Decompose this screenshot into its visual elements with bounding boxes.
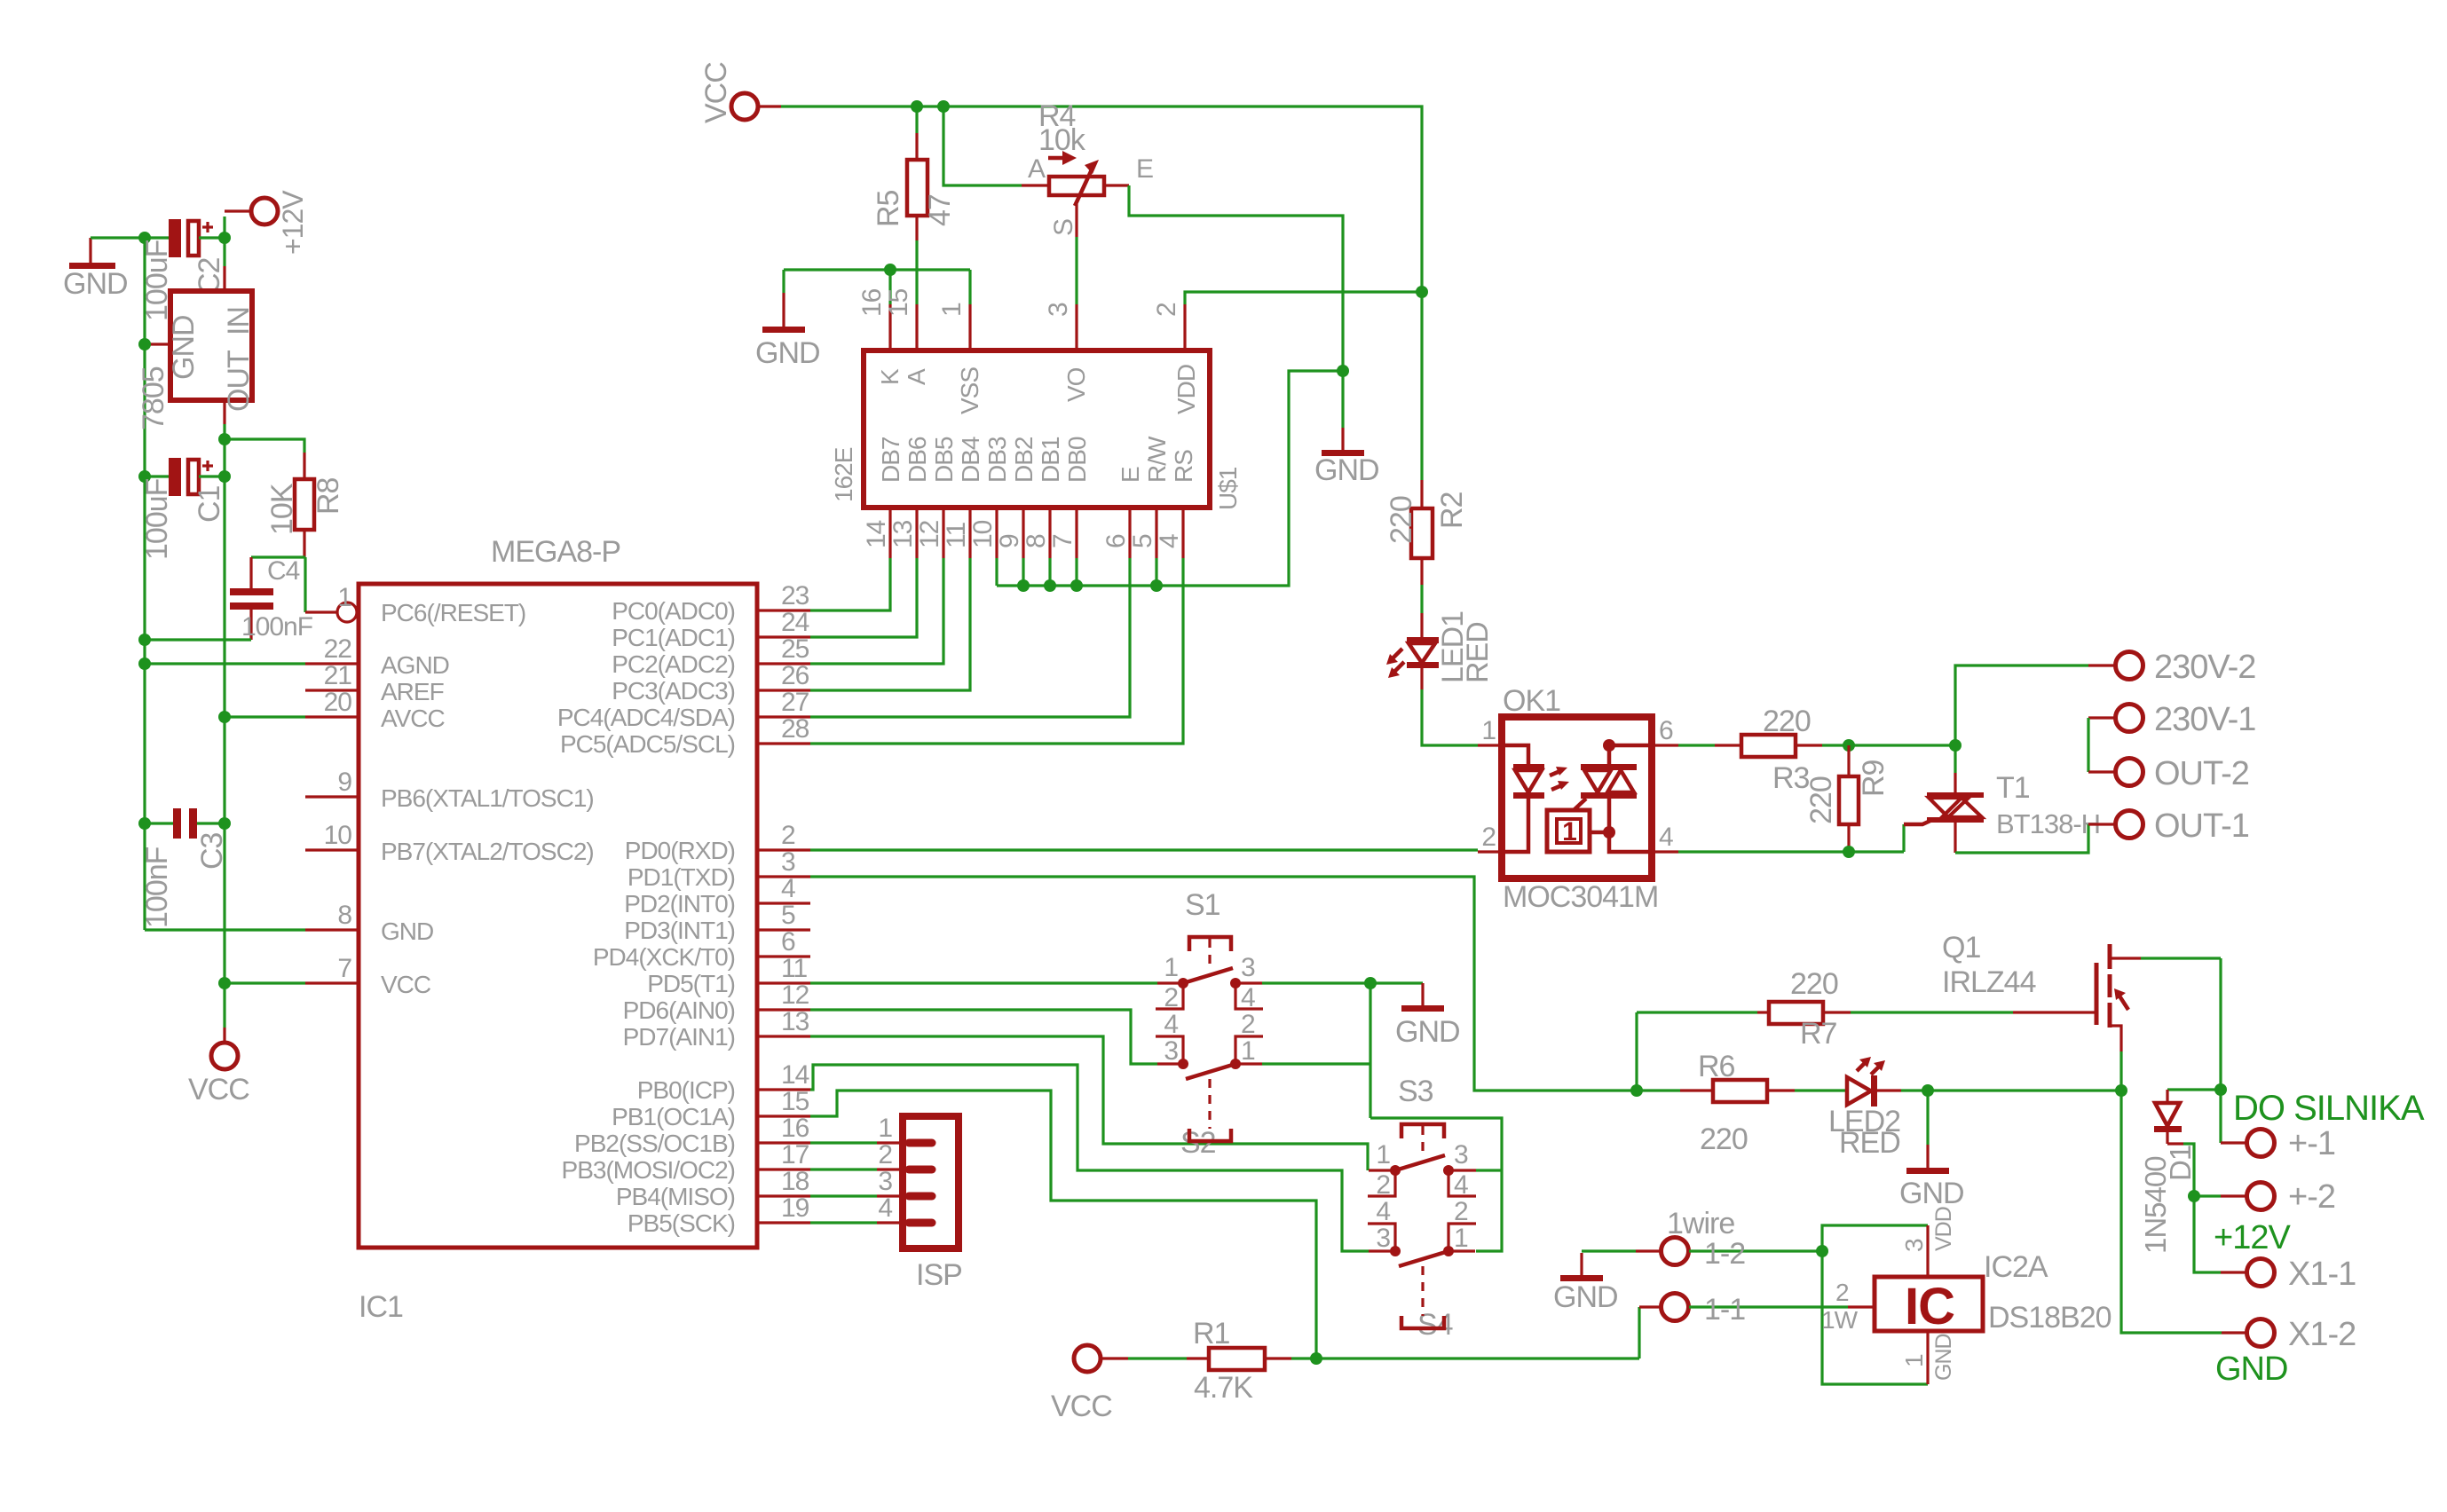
optocoupler OK1 MOC3041M <box>1478 684 1678 914</box>
svg-text:7: 7 <box>337 954 351 983</box>
wire T1 top to 230V-2 <box>1955 665 2088 745</box>
node K tap <box>884 264 896 276</box>
wire PD5 to S1 <box>810 981 1157 984</box>
svg-text:OUT-1: OUT-1 <box>2154 807 2249 845</box>
wires PC0-PC3 to LCD DB7-DB4 <box>810 558 890 610</box>
terminal OUT-1 <box>2088 807 2249 845</box>
svg-text:220: 220 <box>1700 1122 1748 1156</box>
svg-text:+12V: +12V <box>277 190 309 255</box>
node pot-E gnd junction <box>1337 365 1349 377</box>
capacitor C1 <box>138 458 231 560</box>
svg-text:IRLZ44: IRLZ44 <box>1942 965 2036 999</box>
resistor R2 <box>1385 480 1469 585</box>
svg-text:1: 1 <box>937 303 967 317</box>
svg-text:100uF: 100uF <box>140 478 174 560</box>
svg-text:3: 3 <box>1376 1224 1390 1253</box>
svg-text:4: 4 <box>878 1193 892 1223</box>
wire S1 pin3 to GND <box>1262 981 1423 984</box>
svg-text:VO: VO <box>1062 367 1090 402</box>
node VCC pin7 junction <box>218 977 231 989</box>
svg-text:X1-1: X1-1 <box>2288 1256 2356 1293</box>
svg-text:23: 23 <box>781 581 809 610</box>
left pin numbers <box>324 634 352 983</box>
svg-text:S1: S1 <box>1185 888 1220 922</box>
svg-text:220: 220 <box>1804 776 1838 824</box>
wire LCD data bus (DB3..DB0,R/W tied) <box>995 558 998 586</box>
terminal VCC (top) <box>699 62 781 123</box>
svg-text:T1: T1 <box>1996 771 2030 805</box>
svg-text:3: 3 <box>1900 1239 1928 1252</box>
terminal VCC (bottom of +5V rail) <box>188 1028 249 1106</box>
resistor R5 <box>872 106 957 304</box>
right pin numbers <box>781 581 809 1223</box>
wire PD7 to S3 <box>810 1036 1368 1170</box>
svg-text:GND: GND <box>1395 1015 1460 1049</box>
svg-text:A: A <box>1028 154 1046 184</box>
svg-text:10k: 10k <box>1038 123 1086 157</box>
svg-text:3: 3 <box>781 847 795 877</box>
svg-text:1: 1 <box>1376 1140 1390 1169</box>
svg-text:DS18B20: DS18B20 <box>1988 1301 2112 1335</box>
wire LED1 to OK1 pin1 <box>1422 689 1478 745</box>
svg-text:1: 1 <box>1562 817 1576 847</box>
svg-text:1: 1 <box>337 583 351 612</box>
node AVCC junction <box>218 711 231 723</box>
svg-text:230V-1: 230V-1 <box>2154 701 2255 738</box>
svg-text:20: 20 <box>324 688 352 717</box>
svg-text:4: 4 <box>1155 534 1184 548</box>
svg-text:3: 3 <box>878 1167 892 1196</box>
svg-text:21: 21 <box>324 661 352 690</box>
svg-text:R/W: R/W <box>1143 436 1171 483</box>
svg-text:S: S <box>1049 219 1078 236</box>
svg-text:PD3(INT1): PD3(INT1) <box>624 917 735 944</box>
svg-text:GND: GND <box>755 336 820 370</box>
svg-text:RED: RED <box>1461 622 1495 683</box>
svg-text:4: 4 <box>1659 823 1673 852</box>
wire R3 to T1 node <box>1822 744 1955 746</box>
svg-text:PD0(RXD): PD0(RXD) <box>625 837 735 864</box>
svg-text:PB1(OC1A): PB1(OC1A) <box>612 1103 735 1130</box>
node 7805 GND pin on rail <box>138 338 151 350</box>
internal LED <box>1502 745 1528 767</box>
svg-text:IC: IC <box>1905 1278 1954 1335</box>
potentiometer R4 10k <box>943 99 1153 304</box>
svg-text:10: 10 <box>968 520 998 548</box>
svg-text:220: 220 <box>1385 496 1418 544</box>
wire OK1 pin6 to R3 <box>1678 744 1715 746</box>
wire PC5 to LCD RS <box>810 558 1183 744</box>
svg-text:8: 8 <box>337 901 351 930</box>
svg-text:E: E <box>1117 467 1144 483</box>
resistor R6 <box>1680 1050 1795 1156</box>
svg-text:BT138-H: BT138-H <box>1996 808 2100 839</box>
svg-text:VCC: VCC <box>699 62 733 123</box>
svg-text:E: E <box>1136 154 1153 184</box>
wire Q1 drain down to motor terminal <box>2219 958 2222 1143</box>
svg-text:2: 2 <box>1376 1170 1390 1200</box>
svg-text:GND: GND <box>381 917 433 945</box>
svg-text:IC2A: IC2A <box>1984 1250 2048 1284</box>
svg-text:8: 8 <box>1022 534 1051 548</box>
svg-text:PC2(ADC2): PC2(ADC2) <box>612 650 735 678</box>
svg-text:R6: R6 <box>1698 1050 1735 1083</box>
right pin stubs <box>757 610 810 1223</box>
resistor R7 <box>1637 967 1851 1051</box>
svg-text:AREF: AREF <box>381 678 444 705</box>
lcd U$1 162E <box>864 304 1210 558</box>
svg-text:9: 9 <box>337 768 351 797</box>
svg-text:VDD: VDD <box>1172 365 1200 414</box>
svg-text:D1: D1 <box>2164 1146 2197 1181</box>
svg-text:18: 18 <box>781 1167 809 1196</box>
svg-text:GND: GND <box>63 267 128 301</box>
svg-text:+-1: +-1 <box>2288 1125 2335 1162</box>
wire 230V-1 to OUT-2 <box>2087 718 2089 772</box>
svg-text:4: 4 <box>781 874 795 903</box>
wires PB2-PB5 to ISP <box>810 1141 877 1144</box>
svg-text:1W: 1W <box>1821 1306 1859 1334</box>
svg-text:100nF: 100nF <box>140 847 174 928</box>
wire PB1 to R1 (1wire) <box>810 1091 1316 1358</box>
wire PD1 to R6/R7 junction <box>810 877 1680 1091</box>
svg-text:1wire: 1wire <box>1667 1207 1734 1240</box>
switch S2 <box>1156 1010 1263 1160</box>
connector ISP <box>877 1114 962 1292</box>
mcu IC1 MEGA8-P <box>359 584 757 1248</box>
wire AVCC <box>225 715 305 718</box>
svg-text:DB6: DB6 <box>904 437 931 483</box>
svg-text:2: 2 <box>1835 1279 1849 1306</box>
wire C4 bottom to GND rail <box>145 638 251 641</box>
resistor R8 <box>265 453 345 557</box>
svg-text:PD5(T1): PD5(T1) <box>647 970 735 997</box>
resistor R9 <box>1804 745 1891 852</box>
diode D1 1N5400 <box>2139 1090 2221 1254</box>
svg-text:14: 14 <box>781 1060 809 1090</box>
terminal +-2 <box>2194 1178 2335 1216</box>
lcd pin names <box>830 365 1242 510</box>
node C2 right <box>218 232 231 244</box>
svg-text:U$1: U$1 <box>1214 467 1242 510</box>
wire VCC top rail <box>781 106 1422 480</box>
ground (1wire connector) <box>1553 1253 1618 1314</box>
svg-text:IN: IN <box>222 307 256 335</box>
svg-text:19: 19 <box>781 1193 809 1223</box>
svg-text:1-2: 1-2 <box>1704 1237 1745 1271</box>
wire to +12V terminal <box>223 217 225 238</box>
svg-text:4.7K: 4.7K <box>1194 1371 1253 1405</box>
wire DQ up to 1-1 <box>1638 1307 1640 1358</box>
svg-text:15: 15 <box>781 1087 809 1116</box>
node 1wire pullup <box>1310 1352 1322 1365</box>
terminal OUT-2 <box>2088 755 2249 792</box>
svg-text:AGND: AGND <box>381 651 449 679</box>
svg-text:DB5: DB5 <box>930 437 958 483</box>
svg-text:10: 10 <box>324 821 352 850</box>
wire PD0 to OK1 pin2 <box>810 848 1478 851</box>
svg-text:28: 28 <box>781 714 809 744</box>
svg-text:OUT: OUT <box>222 350 256 412</box>
node GND rail / C2 junction <box>138 232 151 244</box>
ground (LED2/Q1 source) <box>1899 1091 1964 1210</box>
svg-text:GND: GND <box>1553 1280 1618 1314</box>
svg-text:24: 24 <box>781 608 809 637</box>
svg-text:2: 2 <box>1481 823 1496 852</box>
svg-text:26: 26 <box>781 661 809 690</box>
svg-text:R5: R5 <box>872 190 905 227</box>
svg-text:X1-2: X1-2 <box>2288 1316 2356 1353</box>
svg-text:DB2: DB2 <box>1010 437 1038 483</box>
node VDD/GND parasite <box>1816 1245 1828 1257</box>
svg-text:1: 1 <box>1900 1354 1928 1367</box>
svg-text:PC4(ADC4/SDA): PC4(ADC4/SDA) <box>557 704 735 731</box>
terminal 230V-1 <box>2088 701 2255 738</box>
svg-text:PC1(ADC1): PC1(ADC1) <box>612 624 735 651</box>
ground (pot E / LCD data) <box>1314 371 1379 487</box>
svg-text:R2: R2 <box>1435 492 1469 529</box>
svg-text:PC6(/RESET): PC6(/RESET) <box>381 599 525 626</box>
wire R8 bottom to C4 top and reset <box>251 555 305 558</box>
node VDD tap <box>1416 286 1428 298</box>
svg-text:DB4: DB4 <box>957 437 984 483</box>
svg-text:PD7(AIN1): PD7(AIN1) <box>623 1023 735 1051</box>
svg-text:100nF: 100nF <box>241 612 313 642</box>
svg-text:Q1: Q1 <box>1942 931 1980 965</box>
svg-text:5: 5 <box>781 901 795 930</box>
led LED2 RED <box>1795 1057 1901 1160</box>
svg-text:1: 1 <box>878 1114 892 1143</box>
svg-text:DB0: DB0 <box>1063 437 1091 483</box>
svg-text:K: K <box>876 368 904 385</box>
terminal +12V <box>225 190 309 255</box>
svg-text:+12V: +12V <box>2214 1219 2291 1256</box>
connector 1wire 1-2 <box>1636 1207 1822 1271</box>
svg-text:220: 220 <box>1763 705 1811 738</box>
svg-text:6: 6 <box>1101 534 1131 548</box>
resistor R1 4.7K <box>1128 1317 1291 1405</box>
svg-text:2: 2 <box>1241 1010 1255 1039</box>
wire PC4 to LCD E <box>810 558 1130 717</box>
wire OK1 pin4 / gate net <box>1678 850 1904 853</box>
svg-text:PB7(XTAL2/TOSC2): PB7(XTAL2/TOSC2) <box>381 838 594 865</box>
internal triac <box>1581 764 1637 770</box>
svg-text:2: 2 <box>1454 1197 1468 1226</box>
node OUT junction <box>218 433 231 445</box>
lcd pin numbers top <box>857 288 1181 317</box>
svg-text:A: A <box>903 368 930 385</box>
svg-text:GND: GND <box>1931 1334 1956 1381</box>
wire T1 bottom to OUT-1 <box>1955 824 2088 853</box>
wire K/VSS gnd <box>784 268 970 271</box>
svg-text:25: 25 <box>781 634 809 664</box>
zero-cross box "1" <box>1547 810 1590 852</box>
svg-text:RED: RED <box>1839 1126 1900 1160</box>
wire PD6 to S2 <box>810 1010 1157 1064</box>
triac T1 BT138-H <box>1904 745 2100 853</box>
svg-text:11: 11 <box>942 523 971 548</box>
switch S3 <box>1368 1075 1476 1200</box>
left pin names <box>381 599 594 998</box>
svg-text:2: 2 <box>781 821 795 850</box>
svg-text:14: 14 <box>862 520 891 548</box>
svg-text:RS: RS <box>1170 450 1197 483</box>
svg-text:13: 13 <box>888 520 918 548</box>
svg-text:16: 16 <box>781 1114 809 1143</box>
svg-text:13: 13 <box>781 1007 809 1036</box>
svg-text:PD1(TXD): PD1(TXD) <box>628 863 735 891</box>
transistor Q1 IRLZ44 <box>1942 931 2221 1091</box>
wire VCC pin7 <box>225 981 305 984</box>
svg-text:MOC3041M: MOC3041M <box>1503 880 1658 914</box>
svg-text:10K: 10K <box>265 483 299 535</box>
svg-text:17: 17 <box>781 1140 809 1169</box>
svg-text:R1: R1 <box>1193 1317 1230 1351</box>
svg-text:1: 1 <box>1241 1036 1255 1066</box>
svg-text:GND: GND <box>167 315 201 380</box>
terminal +-1 <box>2221 1125 2335 1162</box>
capacitor C2 <box>140 219 226 321</box>
svg-text:S3: S3 <box>1398 1075 1433 1108</box>
gate diagonal <box>1574 799 1586 810</box>
svg-text:1: 1 <box>1481 716 1496 745</box>
node AGND junction <box>138 658 151 670</box>
svg-text:OK1: OK1 <box>1503 684 1560 718</box>
svg-text:VCC: VCC <box>381 971 431 998</box>
svg-text:9: 9 <box>995 534 1024 548</box>
svg-text:16: 16 <box>857 288 887 317</box>
svg-text:1: 1 <box>1454 1224 1468 1253</box>
svg-text:230V-2: 230V-2 <box>2154 649 2255 686</box>
svg-text:11: 11 <box>781 954 807 983</box>
svg-text:1: 1 <box>1164 953 1178 982</box>
svg-text:2: 2 <box>1152 303 1181 317</box>
svg-text:+-2: +-2 <box>2288 1178 2335 1216</box>
pin 1 PC6(/RESET) <box>305 583 357 622</box>
svg-text:IC1: IC1 <box>359 1290 403 1324</box>
svg-text:OUT-2: OUT-2 <box>2154 755 2249 792</box>
svg-text:PC3(ADC3): PC3(ADC3) <box>612 677 735 705</box>
ground (input GND top-left) <box>63 238 128 301</box>
svg-text:ISP: ISP <box>916 1258 962 1292</box>
svg-text:PC5(ADC5/SCL): PC5(ADC5/SCL) <box>560 730 735 758</box>
terminal 230V-2 <box>2088 649 2255 686</box>
svg-text:7: 7 <box>1048 534 1077 548</box>
wire +5V rail <box>223 439 225 1028</box>
svg-text:DB3: DB3 <box>983 437 1011 483</box>
svg-text:VCC: VCC <box>188 1073 249 1106</box>
svg-text:3: 3 <box>1164 1036 1178 1066</box>
svg-text:PB0(ICP): PB0(ICP) <box>637 1076 735 1104</box>
svg-text:PB3(MOSI/OC2): PB3(MOSI/OC2) <box>562 1156 735 1184</box>
node R6/R7 <box>1630 1084 1643 1097</box>
led LED1 RED <box>1386 585 1495 689</box>
svg-text:2: 2 <box>878 1140 892 1169</box>
svg-text:4: 4 <box>1241 983 1255 1012</box>
svg-text:GND: GND <box>2215 1351 2287 1388</box>
svg-text:5: 5 <box>1128 534 1157 548</box>
svg-text:VCC: VCC <box>1051 1390 1112 1423</box>
wire GND rail <box>143 238 146 930</box>
svg-text:3: 3 <box>1044 303 1073 317</box>
svg-text:162E: 162E <box>830 447 857 502</box>
svg-text:22: 22 <box>324 634 352 664</box>
svg-text:DB7: DB7 <box>877 437 904 483</box>
svg-text:DB1: DB1 <box>1037 437 1064 483</box>
svg-text:AVCC: AVCC <box>381 705 445 732</box>
wire LED2 cathode / gnd net <box>1901 1089 2121 1091</box>
svg-text:2: 2 <box>1164 983 1178 1012</box>
svg-text:15: 15 <box>884 288 913 317</box>
svg-text:220: 220 <box>1790 967 1838 1001</box>
svg-text:MEGA8-P: MEGA8-P <box>491 535 620 569</box>
svg-text:R7: R7 <box>1800 1017 1837 1051</box>
svg-text:6: 6 <box>781 927 795 957</box>
svg-text:PB2(SS/OC1B): PB2(SS/OC1B) <box>574 1130 735 1157</box>
svg-text:7805: 7805 <box>137 366 170 430</box>
svg-text:GND: GND <box>1314 453 1379 487</box>
svg-text:3: 3 <box>1454 1140 1468 1169</box>
left pin stubs <box>305 662 359 665</box>
switch S1 <box>1156 888 1263 1012</box>
wire PB0 to S4 <box>810 1065 1369 1251</box>
wire gnd rail to X1-2 <box>2121 1091 2222 1333</box>
svg-text:C1: C1 <box>193 485 226 523</box>
svg-text:4: 4 <box>1164 1010 1178 1039</box>
wire to R8 <box>225 439 304 453</box>
svg-text:S4: S4 <box>1417 1308 1453 1342</box>
wire VDD to LCD pin2 <box>1185 292 1422 304</box>
svg-text:C3: C3 <box>195 832 229 870</box>
svg-text:C4: C4 <box>267 556 300 586</box>
svg-text:12: 12 <box>781 980 809 1010</box>
wire GND to pin8 <box>145 928 305 931</box>
wire to VDD pin3 <box>1822 1225 1928 1251</box>
svg-text:4: 4 <box>1454 1170 1468 1200</box>
svg-text:1-1: 1-1 <box>1704 1293 1745 1327</box>
wire pot E to gnd net <box>1129 185 1343 371</box>
ground (switches) <box>1395 983 1460 1049</box>
wire to GND pin1 <box>1822 1251 1928 1384</box>
svg-text:PB4(MISO): PB4(MISO) <box>616 1183 735 1210</box>
capacitor C4 <box>230 556 313 642</box>
terminal VCC (R1) <box>1051 1345 1128 1423</box>
lcd pin numbers bottom <box>862 520 1184 548</box>
svg-text:PB6(XTAL1/TOSC1): PB6(XTAL1/TOSC1) <box>381 784 594 812</box>
svg-text:47: 47 <box>923 194 957 226</box>
wire gnd branch to LCD data bus <box>997 371 1343 586</box>
terminal X1-1 <box>2221 1256 2356 1293</box>
connector 1wire 1-1 <box>1639 1293 1821 1327</box>
svg-text:6: 6 <box>1659 716 1673 745</box>
wire R1 to 1wire bus <box>1291 1357 1639 1359</box>
wire D1 to +12V net <box>2183 1144 2221 1272</box>
capacitor C3 <box>138 808 231 928</box>
svg-text:3: 3 <box>1241 953 1255 982</box>
wire sw gnd bus <box>1369 983 1371 1118</box>
switch S4 <box>1368 1197 1476 1342</box>
svg-text:PC0(ADC0): PC0(ADC0) <box>612 597 735 625</box>
svg-text:27: 27 <box>781 688 809 717</box>
resistor R3 <box>1715 705 1822 795</box>
wire gnd to 1-2 <box>1582 1249 1636 1252</box>
wire R7 to Q1 gate <box>1851 1011 2013 1013</box>
svg-text:PD2(INT0): PD2(INT0) <box>624 890 735 917</box>
svg-text:R9: R9 <box>1857 760 1891 797</box>
terminal X1-2 <box>2222 1316 2356 1353</box>
svg-text:4: 4 <box>1376 1197 1390 1226</box>
svg-text:12: 12 <box>915 520 944 548</box>
